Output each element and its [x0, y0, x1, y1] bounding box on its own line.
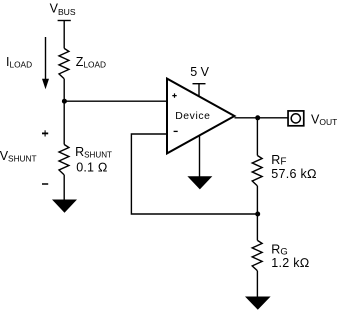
svg-text:ILOAD: ILOAD	[6, 55, 32, 70]
svg-text:RG: RG	[271, 242, 287, 257]
svg-text:Device: Device	[175, 111, 210, 122]
svg-text:0.1 Ω: 0.1 Ω	[76, 161, 107, 175]
svg-text:ZLOAD: ZLOAD	[76, 55, 106, 70]
svg-text:VOUT: VOUT	[311, 112, 337, 126]
svg-text:5 V: 5 V	[190, 65, 209, 79]
svg-text:VBUS: VBUS	[50, 2, 76, 17]
svg-text:1.2 kΩ: 1.2 kΩ	[271, 256, 310, 270]
svg-text:VSHUNT: VSHUNT	[0, 149, 37, 164]
svg-text:RF: RF	[271, 153, 286, 168]
svg-text:57.6 kΩ: 57.6 kΩ	[271, 167, 317, 181]
svg-text:RSHUNT: RSHUNT	[75, 145, 112, 159]
